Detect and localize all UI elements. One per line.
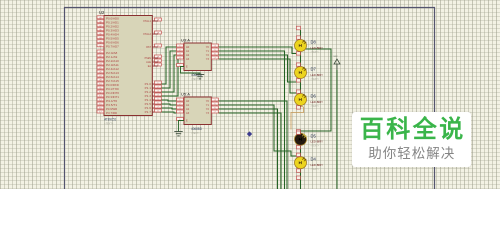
- svg-text:VCC: VCC: [334, 56, 339, 58]
- svg-text:<TEXT>: <TEXT>: [311, 167, 320, 171]
- svg-text:<TEXT>: <TEXT>: [311, 50, 320, 54]
- svg-text:D6: D6: [311, 94, 317, 99]
- svg-text:P1.6: P1.6: [145, 107, 152, 110]
- svg-text:D4: D4: [311, 157, 317, 162]
- svg-text:P3.2/INT0: P3.2/INT0: [106, 91, 120, 95]
- svg-text:RST: RST: [146, 46, 151, 49]
- svg-text:U3:A: U3:A: [181, 37, 190, 42]
- svg-text:P2.1/A9: P2.1/A9: [106, 55, 118, 59]
- svg-text:<TEXT>: <TEXT>: [311, 144, 320, 148]
- svg-text:P0.3/AD3: P0.3/AD3: [106, 29, 119, 33]
- svg-text:P0.1/AD1: P0.1/AD1: [106, 21, 119, 25]
- svg-text:<TEXT>: <TEXT>: [191, 131, 200, 135]
- svg-text:P2.4/A12: P2.4/A12: [106, 67, 119, 71]
- svg-text:P0.4/AD4: P0.4/AD4: [106, 33, 119, 37]
- svg-text:U5:A: U5:A: [181, 91, 190, 96]
- svg-text:P1.4: P1.4: [145, 99, 152, 102]
- svg-text:XTAL2: XTAL2: [143, 33, 152, 36]
- svg-text:P3.5/T1: P3.5/T1: [106, 103, 118, 107]
- svg-text:P3.6/WR: P3.6/WR: [106, 107, 117, 111]
- svg-text:P3.7/RD: P3.7/RD: [106, 111, 117, 115]
- svg-text:EA: EA: [148, 65, 152, 68]
- svg-text:<TEXT>: <TEXT>: [311, 77, 320, 81]
- svg-text:<TEXT>: <TEXT>: [311, 104, 320, 108]
- svg-text:P1.0: P1.0: [145, 83, 152, 86]
- svg-text:D5: D5: [311, 133, 317, 138]
- svg-text:P1.2: P1.2: [145, 91, 152, 94]
- svg-text:P1.3: P1.3: [145, 95, 152, 98]
- svg-text:PSEN: PSEN: [145, 57, 152, 60]
- svg-text:U2: U2: [99, 10, 105, 15]
- svg-text:ALE: ALE: [146, 61, 151, 64]
- svg-text:P2.2/A10: P2.2/A10: [106, 59, 119, 63]
- svg-text:P0.2/AD2: P0.2/AD2: [106, 25, 119, 29]
- svg-text:P2.5/A13: P2.5/A13: [106, 71, 119, 75]
- svg-text:P3.3/INT1: P3.3/INT1: [106, 95, 120, 99]
- svg-text:D8: D8: [311, 40, 317, 45]
- svg-text:P1.7: P1.7: [145, 111, 152, 114]
- svg-text:P0.5/AD5: P0.5/AD5: [106, 37, 119, 41]
- svg-text:P3.0/RXD: P3.0/RXD: [106, 83, 119, 87]
- svg-text:P0.6/AD6: P0.6/AD6: [106, 41, 119, 45]
- svg-text:P2.0/A8: P2.0/A8: [106, 51, 118, 55]
- svg-text:P2.7/A15: P2.7/A15: [106, 79, 119, 83]
- svg-text:<TEXT>: <TEXT>: [191, 77, 200, 81]
- svg-text:P3.4/T0: P3.4/T0: [106, 99, 118, 103]
- svg-text:P0.0/AD0: P0.0/AD0: [106, 17, 119, 21]
- svg-text:P2.3/A11: P2.3/A11: [106, 63, 119, 67]
- svg-text:XTAL1: XTAL1: [143, 20, 152, 23]
- svg-text:<TEXT>: <TEXT>: [104, 122, 113, 126]
- svg-text:P1.1: P1.1: [145, 87, 152, 90]
- svg-text:P2.6/A14: P2.6/A14: [106, 75, 119, 79]
- svg-text:P0.7/AD7: P0.7/AD7: [106, 45, 119, 49]
- svg-text:P3.1/TXD: P3.1/TXD: [106, 87, 119, 91]
- svg-text:P1.5: P1.5: [145, 103, 152, 106]
- svg-text:D7: D7: [311, 67, 317, 72]
